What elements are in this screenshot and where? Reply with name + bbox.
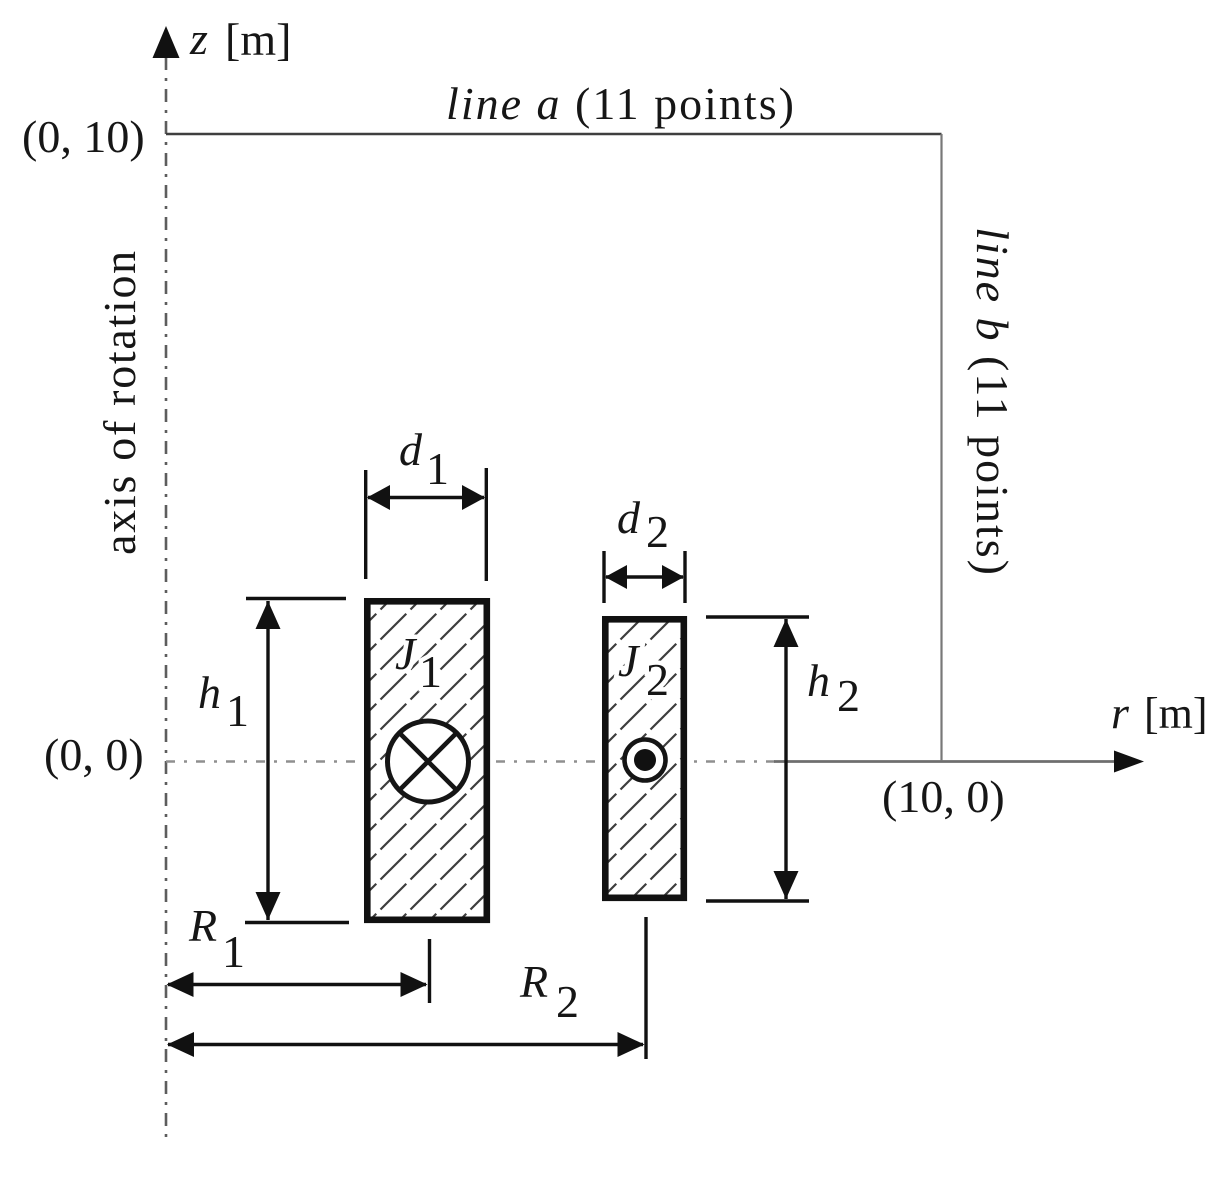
coil 1 current symbol (cross, current into page) <box>388 721 469 802</box>
R2 dimension extension line <box>644 917 647 1059</box>
svg-text:1: 1 <box>419 646 442 697</box>
r axis (dash-dot part left of line b) <box>166 760 776 762</box>
svg-text:R: R <box>188 900 217 951</box>
r axis (solid part) <box>774 760 1120 763</box>
coil 2 label J2 <box>618 635 669 705</box>
svg-text:h: h <box>198 667 221 718</box>
svg-text:r: r <box>1111 687 1130 738</box>
svg-text:2: 2 <box>646 506 669 557</box>
h2 dimension arrow <box>784 619 787 899</box>
svg-text:1: 1 <box>222 926 245 977</box>
d2 dimension extension lines <box>602 551 605 603</box>
h1 dimension arrow <box>266 601 269 920</box>
d1 dimension extension lines <box>364 470 367 579</box>
R1 dimension extension line <box>428 939 431 1003</box>
R2 dimension arrow <box>168 1043 643 1046</box>
svg-text:h: h <box>807 655 830 706</box>
coil 2 current symbol (dot, current out of page) <box>625 740 666 781</box>
svg-text:J: J <box>618 635 641 686</box>
svg-text:(0, 10): (0, 10) <box>22 111 145 162</box>
svg-text:z: z <box>189 13 208 64</box>
coil 2 (hatched rectangle) <box>605 619 684 898</box>
line a <box>166 133 942 136</box>
line b <box>940 134 942 761</box>
coil 1 label J1 <box>395 628 442 697</box>
svg-text:line b (11 points): line b (11 points) <box>967 227 1018 577</box>
h2 dimension ticks <box>706 615 809 618</box>
svg-text:axis of rotation: axis of rotation <box>94 249 145 555</box>
svg-text:R: R <box>519 956 548 1007</box>
svg-text:(0, 0): (0, 0) <box>44 729 144 780</box>
svg-text:d: d <box>399 424 423 475</box>
svg-text:[m]: [m] <box>225 14 291 65</box>
R1 dimension arrow <box>168 983 426 986</box>
svg-text:d: d <box>617 492 641 543</box>
z axis arrowhead <box>153 26 180 58</box>
coil 1 (hatched rectangle) <box>367 601 487 920</box>
h1 dimension ticks <box>246 597 346 600</box>
svg-text:2: 2 <box>556 976 579 1027</box>
svg-text:2: 2 <box>646 654 669 705</box>
svg-text:2: 2 <box>837 670 860 721</box>
z axis (axis of rotation, dash-dot centerline) <box>165 57 168 1140</box>
svg-text:line a (11 points): line a (11 points) <box>446 78 796 129</box>
d1 dimension arrow <box>368 496 484 499</box>
svg-text:[m]: [m] <box>1144 689 1208 738</box>
r axis arrowhead <box>1114 751 1144 773</box>
svg-text:J: J <box>395 628 418 679</box>
svg-text:(10, 0): (10, 0) <box>882 771 1005 822</box>
d2 dimension arrow <box>606 575 683 578</box>
svg-text:1: 1 <box>226 685 249 736</box>
svg-text:1: 1 <box>426 443 449 494</box>
